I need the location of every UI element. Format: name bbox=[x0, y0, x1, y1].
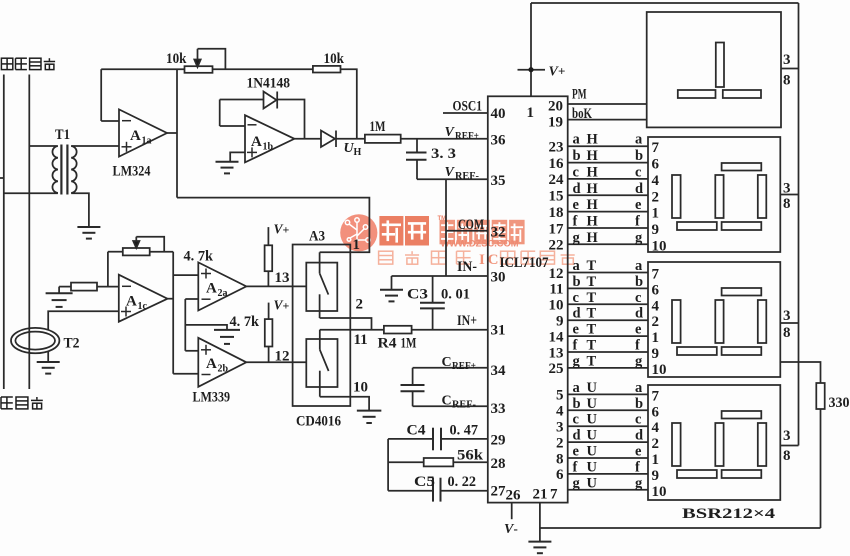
svg-text:A: A bbox=[206, 281, 217, 297]
svg-text:13: 13 bbox=[549, 345, 564, 361]
wire A2b non-inverting input bbox=[185, 350, 198, 352]
svg-text:2b: 2b bbox=[218, 364, 229, 375]
svg-text:4: 4 bbox=[652, 173, 660, 189]
svg-text:3: 3 bbox=[556, 420, 564, 436]
display DS4 body bbox=[648, 385, 780, 500]
svg-text:T: T bbox=[587, 322, 597, 338]
svg-text:f: f bbox=[573, 214, 578, 230]
wire VREF- riser down to IN- node bbox=[445, 179, 447, 276]
wire A1c output stub bbox=[168, 298, 174, 300]
resistor 330 bbox=[816, 383, 824, 409]
potentiometer 10k (top) bbox=[185, 66, 213, 73]
DS1 bottom segment right bbox=[723, 90, 761, 98]
svg-text:a: a bbox=[573, 132, 581, 148]
svg-text:U: U bbox=[587, 380, 598, 396]
svg-text:1M: 1M bbox=[401, 336, 417, 352]
ground at comparator reference bbox=[214, 329, 240, 331]
wire pin 34 CREF+ bbox=[413, 367, 488, 369]
svg-text:b: b bbox=[573, 274, 581, 290]
svg-text:A: A bbox=[130, 128, 141, 144]
svg-text:3: 3 bbox=[783, 428, 791, 444]
svg-text:a: a bbox=[635, 380, 643, 396]
wire T1 primary bottom lead to AC line 1 bbox=[4, 192, 58, 194]
wire segment e T bbox=[568, 335, 648, 337]
svg-text:2: 2 bbox=[356, 297, 364, 313]
svg-text:10: 10 bbox=[353, 380, 368, 396]
diode 1N4148 bbox=[264, 92, 277, 109]
ground at T1 secondary bbox=[77, 226, 100, 228]
resistor R4 1M bbox=[384, 326, 412, 334]
svg-text:REF-: REF- bbox=[455, 171, 479, 182]
svg-text:1: 1 bbox=[353, 237, 361, 253]
svg-text:4: 4 bbox=[652, 420, 660, 436]
svg-text:T: T bbox=[587, 258, 597, 274]
svg-text:f: f bbox=[635, 459, 640, 475]
svg-text:CD4016: CD4016 bbox=[296, 414, 341, 430]
svg-text:10: 10 bbox=[652, 484, 667, 500]
wire segment b U bbox=[568, 409, 648, 411]
ground stub at IN- bbox=[391, 276, 393, 290]
svg-text:31: 31 bbox=[491, 323, 506, 339]
wire top feedback rail bbox=[101, 68, 184, 70]
svg-text:4: 4 bbox=[556, 404, 564, 420]
svg-text:d: d bbox=[635, 428, 643, 444]
svg-text:1: 1 bbox=[652, 206, 660, 222]
svg-text:+: + bbox=[558, 64, 565, 79]
svg-text:g: g bbox=[573, 353, 581, 369]
svg-text:4. 7k: 4. 7k bbox=[230, 314, 260, 330]
svg-text:12: 12 bbox=[275, 349, 290, 365]
display DS3 segments bbox=[672, 288, 766, 355]
wire pot to A1c inverting input bbox=[107, 252, 109, 287]
svg-text:21: 21 bbox=[533, 487, 548, 503]
wire 330 resistor to bottom rail bbox=[820, 409, 822, 528]
svg-text:REF+: REF+ bbox=[452, 361, 476, 372]
svg-text:6: 6 bbox=[652, 282, 660, 298]
svg-text:T1: T1 bbox=[55, 127, 70, 143]
ground at pin 21 bbox=[528, 541, 551, 543]
wire A1a output riser bbox=[176, 69, 178, 197]
transformer T1 primary winding bbox=[29, 146, 58, 193]
svg-text:b: b bbox=[635, 396, 643, 412]
wire pin 29 left segment bbox=[388, 438, 433, 440]
capacitor C3 lower lead bbox=[432, 308, 434, 329]
svg-text:b: b bbox=[573, 148, 581, 164]
wire stub at left border bbox=[0, 177, 5, 179]
DS1 segment b/c vertical bbox=[716, 43, 724, 88]
wire pin 19 boK bbox=[568, 119, 647, 121]
wire T1 secondary top lead to A1a + bbox=[71, 145, 119, 147]
svg-text:d: d bbox=[635, 181, 643, 197]
svg-text:14: 14 bbox=[549, 329, 565, 345]
svg-text:1a: 1a bbox=[142, 136, 152, 147]
svg-text:REF+: REF+ bbox=[455, 131, 479, 142]
svg-text:+: + bbox=[283, 299, 290, 313]
svg-text:8: 8 bbox=[783, 73, 791, 89]
wire pin 35 VREF- bbox=[417, 178, 488, 180]
svg-text:24: 24 bbox=[549, 172, 565, 188]
svg-text:g: g bbox=[635, 353, 643, 369]
wire segment e H bbox=[568, 211, 648, 213]
svg-text:d: d bbox=[635, 306, 643, 322]
DS3 pin divider wire bbox=[780, 322, 798, 324]
svg-text:C4: C4 bbox=[407, 423, 427, 439]
svg-text:0. 22: 0. 22 bbox=[448, 474, 477, 490]
switch S1 box bbox=[306, 263, 337, 311]
ground at T2 bbox=[37, 361, 60, 363]
svg-text:25: 25 bbox=[549, 361, 564, 377]
svg-text:0. 47: 0. 47 bbox=[450, 423, 479, 439]
display DS2 body bbox=[648, 137, 780, 252]
svg-text:23: 23 bbox=[549, 140, 564, 156]
wire U_H to 1M resistor bbox=[336, 138, 365, 140]
wire pot to 10k resistor bbox=[213, 68, 313, 70]
wire V+ top rail bbox=[531, 2, 799, 4]
svg-text:1N4148: 1N4148 bbox=[247, 76, 291, 92]
svg-text:18: 18 bbox=[549, 205, 564, 221]
svg-text:1: 1 bbox=[527, 105, 535, 121]
op-amp A1a bbox=[119, 109, 167, 156]
wire segment a H bbox=[568, 145, 648, 147]
svg-text:U: U bbox=[587, 475, 598, 491]
svg-text:U: U bbox=[587, 459, 598, 475]
wire segment d U bbox=[568, 441, 648, 443]
transformer T1 core bbox=[60, 145, 62, 195]
svg-text:e: e bbox=[635, 197, 642, 213]
wire A2b inverting input bbox=[173, 373, 198, 375]
svg-text:56k: 56k bbox=[457, 448, 484, 464]
svg-text:a: a bbox=[635, 258, 643, 274]
svg-text:1c: 1c bbox=[138, 301, 148, 312]
svg-text:H: H bbox=[587, 148, 599, 164]
wire A2a inverting input bbox=[185, 298, 198, 300]
svg-text:30: 30 bbox=[491, 270, 506, 286]
svg-text:2: 2 bbox=[652, 189, 660, 205]
wire T2 to A1c non-inverting input bbox=[48, 311, 119, 330]
svg-text:1: 1 bbox=[652, 452, 660, 468]
svg-text:b: b bbox=[573, 396, 581, 412]
svg-text:2a: 2a bbox=[218, 288, 228, 299]
wire A1a inverting input bbox=[101, 120, 119, 122]
wire CD4016 pin 10 to ground bbox=[320, 397, 369, 411]
DS1 pin divider wire bbox=[781, 68, 799, 70]
capacitor 3.3 bbox=[406, 152, 427, 154]
svg-text:a: a bbox=[635, 132, 643, 148]
wire segment g H bbox=[568, 243, 648, 245]
svg-text:9: 9 bbox=[652, 468, 660, 484]
wire segment c U bbox=[568, 425, 648, 427]
svg-text:26: 26 bbox=[506, 488, 522, 504]
svg-text:U: U bbox=[587, 428, 598, 444]
svg-text:6: 6 bbox=[652, 157, 660, 173]
op-amp A1c bbox=[119, 275, 168, 322]
node: load label 至负载 bbox=[1, 397, 13, 409]
svg-text:e: e bbox=[635, 444, 642, 460]
wire DS3 pin 8 to 330 resistor bbox=[780, 362, 821, 383]
wire AC line 1 (left) bbox=[3, 75, 5, 390]
wire A2a output to CD4016 pin 13 bbox=[246, 285, 306, 287]
svg-text:36: 36 bbox=[491, 132, 507, 148]
comparator A2b bbox=[198, 338, 246, 387]
wire A1b inverting input bbox=[220, 125, 245, 127]
wire segment a T bbox=[568, 272, 648, 274]
svg-text:e: e bbox=[573, 444, 580, 460]
svg-text:e: e bbox=[573, 197, 580, 213]
wire right-side bus from V+ rail bbox=[798, 3, 800, 446]
wire segment f U bbox=[568, 473, 648, 475]
wire A1b output bbox=[294, 138, 321, 140]
svg-text:7: 7 bbox=[652, 388, 660, 404]
wire oscillator-network left bus bbox=[387, 439, 389, 491]
svg-text:U: U bbox=[587, 396, 598, 412]
wire bottom rail to ground node bbox=[540, 527, 821, 529]
svg-text:22: 22 bbox=[549, 238, 564, 254]
svg-text:4: 4 bbox=[652, 298, 660, 314]
svg-text:IN-: IN- bbox=[457, 259, 477, 275]
svg-text:2: 2 bbox=[652, 314, 660, 330]
svg-text:g: g bbox=[635, 475, 643, 491]
DS1 bottom segment left bbox=[678, 90, 716, 98]
wire A2b output to CD4016 pin 12 bbox=[246, 361, 306, 363]
svg-text:17: 17 bbox=[549, 221, 565, 237]
wire segment d H bbox=[568, 194, 648, 196]
display DS4 segments bbox=[672, 411, 766, 478]
svg-text:35: 35 bbox=[491, 173, 506, 189]
svg-text:19: 19 bbox=[548, 115, 563, 131]
svg-text:40: 40 bbox=[491, 106, 506, 122]
IC U1 ICL7107 body bbox=[488, 96, 568, 502]
svg-text:d: d bbox=[573, 428, 581, 444]
wire pin 28 (56k) bbox=[388, 461, 488, 463]
svg-text:IN+: IN+ bbox=[457, 313, 477, 329]
svg-text:COM: COM bbox=[458, 217, 484, 233]
svg-text:10: 10 bbox=[652, 362, 667, 378]
svg-text:LM339: LM339 bbox=[193, 390, 231, 406]
potentiometer A1c feedback bbox=[108, 251, 123, 253]
svg-text:2: 2 bbox=[556, 435, 564, 451]
svg-text:f: f bbox=[635, 214, 640, 230]
svg-text:H: H bbox=[587, 197, 599, 213]
svg-text:10k: 10k bbox=[166, 51, 187, 67]
IC pin 1 wire to V+ rail bbox=[530, 3, 532, 96]
wire segment b T bbox=[568, 287, 648, 289]
svg-text:REF-: REF- bbox=[452, 400, 476, 411]
capacitor C5 bbox=[432, 478, 434, 502]
svg-text:29: 29 bbox=[491, 433, 506, 449]
svg-text:b: b bbox=[635, 148, 643, 164]
svg-text:5: 5 bbox=[556, 388, 564, 404]
svg-text:13: 13 bbox=[275, 270, 290, 286]
svg-text:+: + bbox=[283, 223, 290, 237]
wire segment c T bbox=[568, 303, 648, 305]
wire pin 31 IN+ bbox=[412, 329, 488, 331]
svg-text:H: H bbox=[587, 214, 599, 230]
wire pin 26 stub bbox=[511, 503, 513, 520]
wire pin 27 left segment bbox=[388, 490, 433, 492]
svg-text:T2: T2 bbox=[64, 336, 80, 352]
wire pin 20 PM bbox=[568, 103, 647, 105]
svg-text:H: H bbox=[587, 164, 599, 180]
svg-text:g: g bbox=[573, 230, 581, 246]
wire A1a output to CD4016 pin 1 bbox=[177, 198, 369, 253]
svg-text:R4: R4 bbox=[378, 336, 398, 352]
svg-text:8: 8 bbox=[783, 196, 791, 212]
analog switch A3 CD4016 body bbox=[293, 245, 351, 407]
svg-text:U: U bbox=[587, 412, 598, 428]
wire pin 29 right segment bbox=[441, 438, 488, 440]
wire segment e U bbox=[568, 457, 648, 459]
svg-text:33: 33 bbox=[491, 401, 506, 417]
wire CD4016 pin 2 bbox=[320, 318, 372, 330]
svg-text:c: c bbox=[573, 412, 580, 428]
svg-text:e: e bbox=[635, 322, 642, 338]
svg-text:32: 32 bbox=[491, 225, 506, 241]
svg-text:C: C bbox=[488, 252, 499, 268]
capacitor 3.3 lead lower bbox=[416, 160, 418, 180]
svg-text:f: f bbox=[573, 338, 578, 354]
ground at A1b + bbox=[216, 161, 239, 163]
svg-text:d: d bbox=[573, 306, 581, 322]
capacitor C3 bbox=[420, 302, 445, 304]
wire segment f T bbox=[568, 351, 648, 353]
wire A2a- to A2b+ riser bbox=[184, 299, 186, 351]
switch S2 contacts bbox=[319, 330, 321, 350]
resistor 1M (VREF+) bbox=[365, 135, 401, 143]
svg-text:d: d bbox=[573, 181, 581, 197]
wire pin 33 CREF- bbox=[413, 405, 488, 407]
svg-text:C5: C5 bbox=[414, 474, 435, 490]
svg-text:8: 8 bbox=[783, 448, 791, 464]
comparator A2a bbox=[198, 262, 246, 310]
svg-text:27: 27 bbox=[491, 484, 507, 500]
svg-text:c: c bbox=[635, 290, 642, 306]
wire CD4016 pin 11 to R4 bbox=[320, 329, 384, 331]
svg-text:C3: C3 bbox=[407, 287, 428, 303]
svg-text:b: b bbox=[635, 274, 643, 290]
svg-text:28: 28 bbox=[491, 456, 506, 472]
wire segment g T bbox=[568, 367, 648, 369]
svg-text:c: c bbox=[573, 290, 580, 306]
svg-text:a: a bbox=[573, 258, 581, 274]
wire pin 21 to ground bbox=[539, 503, 541, 542]
op-amp A1b bbox=[245, 115, 294, 162]
svg-text:c: c bbox=[635, 164, 642, 180]
svg-text:boK: boK bbox=[572, 106, 592, 122]
svg-text:T: T bbox=[587, 353, 597, 369]
svg-text:U: U bbox=[587, 444, 598, 460]
display DS2 segments bbox=[672, 163, 766, 230]
svg-text:C: C bbox=[442, 394, 452, 409]
svg-text:10k: 10k bbox=[324, 51, 345, 67]
svg-text:4. 7k: 4. 7k bbox=[184, 249, 214, 265]
wire diode feedback right segment bbox=[277, 100, 304, 139]
svg-text:1M: 1M bbox=[370, 119, 386, 135]
wire pin 30 IN- bbox=[392, 275, 488, 277]
capacitor CREF upper lead bbox=[412, 368, 414, 385]
wire A1a feedback riser bbox=[100, 69, 102, 121]
svg-text:ICL7107: ICL7107 bbox=[500, 255, 549, 271]
wire pin 27 right segment bbox=[441, 490, 488, 492]
wire A1b non-inverting input to ground bbox=[230, 152, 245, 161]
svg-text:6: 6 bbox=[556, 467, 564, 483]
svg-text:BSR212×4: BSR212×4 bbox=[682, 506, 776, 522]
svg-text:9: 9 bbox=[652, 346, 660, 362]
svg-text:3: 3 bbox=[783, 52, 791, 68]
svg-text:OSC1: OSC1 bbox=[453, 99, 483, 115]
capacitor CREF bbox=[401, 384, 425, 386]
svg-text:g: g bbox=[573, 475, 581, 491]
ground at IN- bbox=[380, 289, 403, 291]
svg-text:15: 15 bbox=[549, 189, 564, 205]
display DS1 body (half digit) bbox=[647, 12, 781, 127]
svg-text:20: 20 bbox=[548, 99, 563, 115]
capacitor C3 upper lead bbox=[432, 276, 434, 303]
svg-text:C: C bbox=[442, 355, 452, 370]
display DS3 body bbox=[648, 262, 780, 377]
ground stub at A1c input bbox=[58, 287, 60, 294]
capacitor CREF lower lead bbox=[412, 391, 414, 406]
wire T2 to ground bbox=[47, 352, 49, 363]
current transformer T2 ring bbox=[11, 328, 59, 353]
svg-text:g: g bbox=[635, 230, 643, 246]
svg-text:6: 6 bbox=[652, 404, 660, 420]
wire segment g U bbox=[568, 489, 648, 491]
wire segment f H bbox=[568, 227, 648, 229]
svg-text:330: 330 bbox=[829, 395, 850, 411]
svg-text:a: a bbox=[573, 380, 581, 396]
svg-text:-: - bbox=[514, 521, 518, 536]
resistor 10k (A1b feedback) bbox=[313, 66, 341, 73]
svg-text:3. 3: 3. 3 bbox=[431, 146, 456, 162]
svg-text:10: 10 bbox=[549, 298, 564, 314]
wire reference to ground bbox=[185, 325, 227, 330]
node: AC mains label 交流电源 bbox=[1, 58, 12, 69]
resistor 56k bbox=[424, 458, 454, 466]
svg-text:1: 1 bbox=[652, 330, 660, 346]
capacitor 3.3 lead upper bbox=[416, 139, 418, 153]
svg-text:T: T bbox=[587, 274, 597, 290]
svg-text:1b: 1b bbox=[263, 142, 274, 153]
svg-text:c: c bbox=[573, 164, 580, 180]
svg-text:11: 11 bbox=[549, 282, 563, 298]
svg-text:9: 9 bbox=[556, 314, 564, 330]
svg-text:f: f bbox=[635, 338, 640, 354]
svg-text:H: H bbox=[587, 181, 599, 197]
wire diode feedback left segment bbox=[220, 99, 264, 101]
DS2 pin divider wire bbox=[780, 194, 798, 196]
svg-text:7: 7 bbox=[550, 487, 558, 503]
svg-text:c: c bbox=[635, 412, 642, 428]
wire segment d T bbox=[568, 319, 648, 321]
wire T1 secondary bottom lead bbox=[71, 193, 89, 227]
svg-text:PM: PM bbox=[572, 87, 587, 103]
svg-text:8: 8 bbox=[556, 451, 564, 467]
svg-text:LM324: LM324 bbox=[113, 164, 151, 180]
switch S2 box bbox=[306, 339, 337, 387]
diode at A1b output bbox=[321, 131, 335, 148]
wire pin 32 COM bbox=[446, 230, 488, 232]
wire A1a output stub bbox=[167, 132, 177, 134]
svg-text:T: T bbox=[587, 290, 597, 306]
svg-text:34: 34 bbox=[491, 363, 507, 379]
svg-text:WWW.DZSC.COM: WWW.DZSC.COM bbox=[441, 239, 519, 249]
svg-text:H: H bbox=[587, 230, 599, 246]
svg-text:8: 8 bbox=[783, 325, 791, 341]
DS4 pin divider wire bbox=[780, 445, 798, 447]
svg-text:H: H bbox=[587, 132, 599, 148]
wire A1b inverting node riser bbox=[219, 100, 221, 127]
svg-text:A: A bbox=[206, 356, 217, 372]
